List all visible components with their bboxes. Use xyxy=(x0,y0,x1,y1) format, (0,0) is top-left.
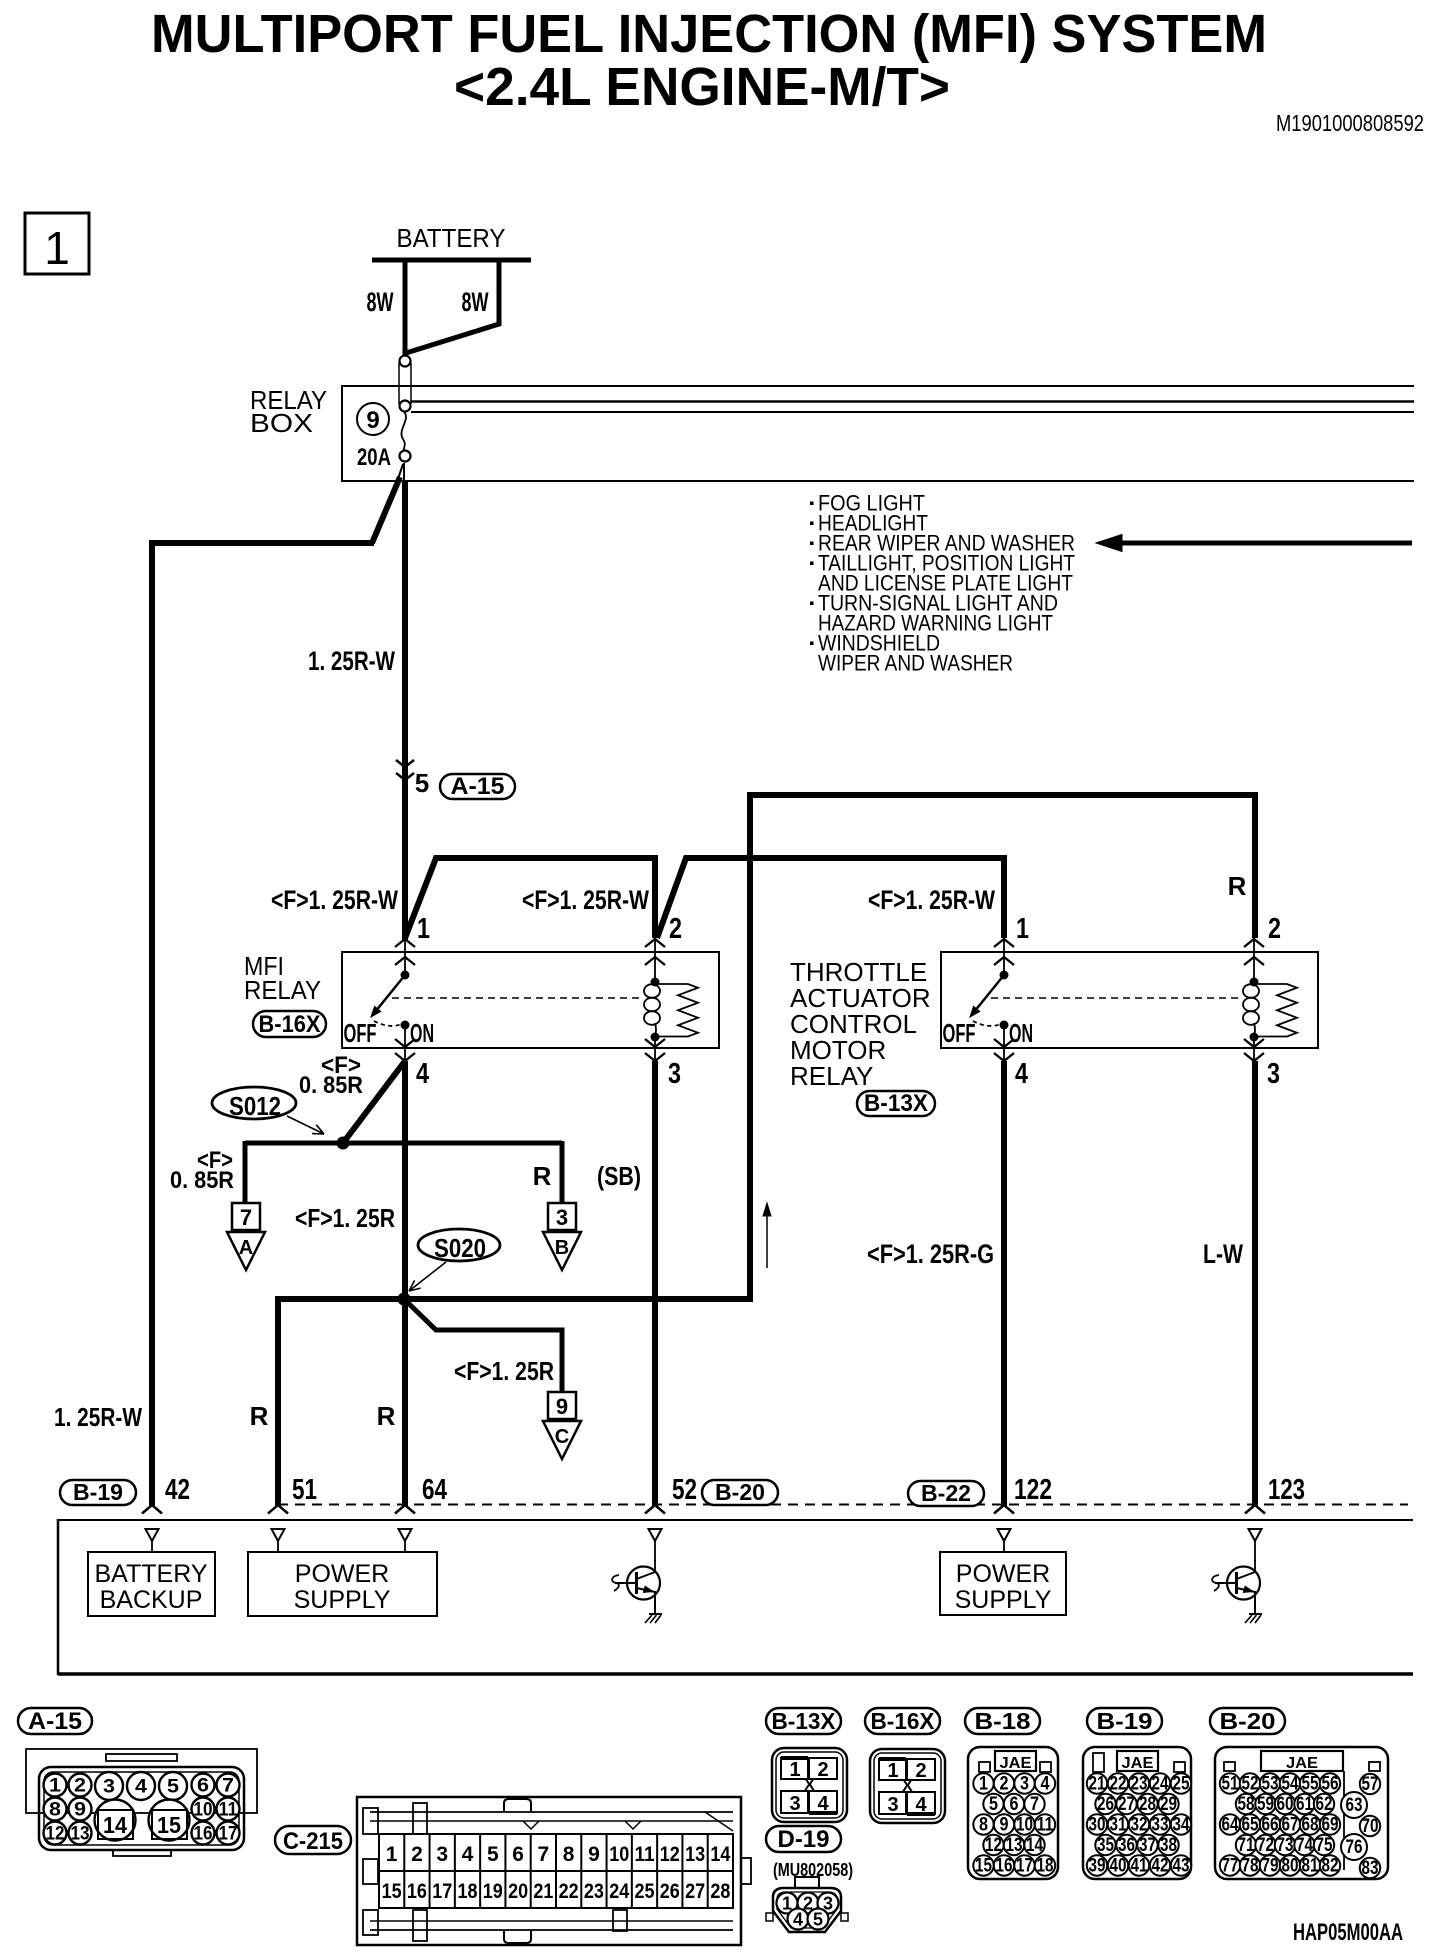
svg-text:66: 66 xyxy=(1262,1815,1279,1836)
throttle actuator control motor relay B-13X switch common contact xyxy=(1000,971,1009,980)
wire R main vertical to ECU pin 64 xyxy=(402,1061,408,1506)
svg-text:67: 67 xyxy=(1282,1815,1299,1836)
svg-text:43: 43 xyxy=(1173,1856,1190,1877)
connector ref label B-22 at ECU xyxy=(908,1481,984,1506)
wire F 1.25R-G from throttle pin4 to ECU pin 122 xyxy=(1001,1061,1007,1506)
svg-text:17: 17 xyxy=(1016,1856,1033,1877)
svg-text:14: 14 xyxy=(710,1843,730,1866)
ECU box outline xyxy=(58,1519,1413,1521)
svg-text:B-20: B-20 xyxy=(1220,1708,1276,1734)
transistor Q2 at pin 123 base bar xyxy=(1235,1572,1238,1594)
figure number 1 box xyxy=(25,213,89,274)
svg-text:72: 72 xyxy=(1257,1835,1274,1856)
svg-text:B-13X: B-13X xyxy=(772,1708,837,1734)
svg-text:23: 23 xyxy=(1131,1774,1148,1795)
svg-text:<F>1. 25R-W: <F>1. 25R-W xyxy=(271,885,398,915)
svg-text:4: 4 xyxy=(1015,1058,1028,1090)
svg-text:POWER: POWER xyxy=(295,1560,389,1588)
svg-text:65: 65 xyxy=(1242,1815,1259,1836)
battery positive bus bar xyxy=(372,258,531,263)
terminal 7 box xyxy=(232,1203,260,1230)
svg-text:B-19: B-19 xyxy=(73,1479,123,1505)
terminal 9 box xyxy=(548,1392,576,1419)
transistor Q1 at pin 52 circle xyxy=(627,1567,660,1600)
svg-text:33: 33 xyxy=(1152,1815,1169,1836)
ECU internal terminal flag pin 51 xyxy=(272,1529,285,1541)
svg-text:63: 63 xyxy=(1346,1795,1363,1816)
svg-text:11: 11 xyxy=(219,1800,238,1821)
throttle actuator control motor relay B-13X switch throw dashed arc to ON xyxy=(973,1021,1001,1026)
svg-text:R: R xyxy=(533,1161,552,1191)
svg-text:A: A xyxy=(239,1237,253,1259)
svg-text:1: 1 xyxy=(887,1760,898,1782)
throttle actuator control motor relay B-13X coil lower node xyxy=(1250,1033,1259,1042)
svg-text:POWER: POWER xyxy=(956,1560,1050,1588)
svg-text:20: 20 xyxy=(508,1880,528,1903)
svg-text:4: 4 xyxy=(135,1777,147,1798)
connector destination B triangle xyxy=(543,1232,581,1270)
svg-text:1: 1 xyxy=(789,1759,800,1781)
svg-text:1: 1 xyxy=(386,1843,398,1866)
svg-text:64: 64 xyxy=(422,1474,447,1506)
svg-text:2: 2 xyxy=(74,1776,86,1797)
connector ref label B-13X xyxy=(766,1708,841,1734)
svg-text:9: 9 xyxy=(556,1394,568,1419)
svg-text:16: 16 xyxy=(194,1824,213,1845)
MFI relay B-16X box outline xyxy=(342,952,719,1048)
wire from fuse diagonal to left branch xyxy=(398,464,403,479)
svg-text:8W: 8W xyxy=(462,287,489,317)
wire horizontal to far-left battery backup feed xyxy=(152,540,374,546)
fuse 9 20A element wavy wire xyxy=(401,412,406,451)
svg-text:52: 52 xyxy=(672,1474,697,1506)
connector A-15 cavity 15 xyxy=(149,1800,190,1841)
svg-text:28: 28 xyxy=(1139,1794,1156,1815)
svg-text:26: 26 xyxy=(1097,1794,1114,1815)
svg-text:3: 3 xyxy=(556,1205,568,1230)
svg-text:6: 6 xyxy=(512,1843,524,1866)
connector ref label B-18 xyxy=(965,1708,1040,1734)
svg-text:32: 32 xyxy=(1131,1815,1148,1836)
throttle relay connector ref B-13X xyxy=(857,1091,935,1116)
S020 callout arrow xyxy=(409,1262,446,1291)
reference up arrow xyxy=(766,1213,768,1268)
svg-text:8: 8 xyxy=(979,1815,988,1836)
relay box load list xyxy=(810,491,1075,676)
wire battery left 8W xyxy=(403,258,408,356)
svg-text:3: 3 xyxy=(1020,1774,1029,1795)
svg-text:4: 4 xyxy=(1041,1774,1050,1795)
throttle actuator control motor relay name label xyxy=(790,957,931,1091)
svg-text:12: 12 xyxy=(985,1835,1002,1856)
svg-text:1. 25R-W: 1. 25R-W xyxy=(308,646,395,676)
ECU internal terminal flag pin 123 xyxy=(1249,1529,1262,1541)
svg-text:1: 1 xyxy=(44,222,70,274)
svg-text:<F>1. 25R: <F>1. 25R xyxy=(454,1356,554,1386)
svg-text:L-W: L-W xyxy=(1203,1239,1243,1269)
connector C-215 pin grid xyxy=(379,1834,733,1908)
MFI relay B-16X switch common contact xyxy=(401,971,410,980)
svg-text:7: 7 xyxy=(240,1205,252,1230)
svg-text:19: 19 xyxy=(483,1880,503,1903)
svg-text:21: 21 xyxy=(533,1880,553,1903)
svg-text:5: 5 xyxy=(989,1794,998,1815)
ECU internal terminal flag pin 64 xyxy=(399,1529,412,1541)
throttle actuator control motor relay B-13X pin 2 terminal symbol xyxy=(1244,939,1264,947)
svg-text:83: 83 xyxy=(1362,1858,1379,1879)
svg-text:9: 9 xyxy=(588,1843,600,1866)
connector C-215 housing xyxy=(357,1797,741,1945)
svg-text:27: 27 xyxy=(1118,1794,1135,1815)
svg-text:1: 1 xyxy=(1016,913,1029,945)
wire SB from MFI pin3 to ECU pin 52 xyxy=(652,1061,658,1506)
svg-text:30: 30 xyxy=(1089,1815,1106,1836)
svg-text:18: 18 xyxy=(458,1880,478,1903)
ECU internal terminal flag pin 52 xyxy=(649,1529,662,1541)
svg-text:2: 2 xyxy=(1268,913,1281,945)
svg-text:R: R xyxy=(1228,871,1247,901)
svg-text:17: 17 xyxy=(432,1880,452,1903)
svg-text:51: 51 xyxy=(1222,1774,1239,1795)
svg-text:80: 80 xyxy=(1282,1856,1299,1877)
svg-text:26: 26 xyxy=(660,1880,680,1903)
svg-text:71: 71 xyxy=(1238,1835,1255,1856)
svg-text:58: 58 xyxy=(1238,1794,1255,1815)
transistor Q1 at pin 52 collector xyxy=(637,1572,656,1579)
svg-text:4: 4 xyxy=(793,1910,803,1930)
svg-text:40: 40 xyxy=(1110,1856,1127,1877)
throttle actuator control motor relay B-13X resistor in parallel with coil xyxy=(1254,984,1297,1037)
connector A-15 cavity 14 xyxy=(95,1800,136,1841)
svg-text:B-16X: B-16X xyxy=(871,1708,936,1734)
svg-text:42: 42 xyxy=(1152,1856,1169,1877)
svg-text:JAE: JAE xyxy=(1122,1755,1154,1772)
svg-text:2: 2 xyxy=(817,1759,828,1781)
wire R down to terminal 3 xyxy=(560,1141,565,1203)
svg-text:JAE: JAE xyxy=(1286,1755,1318,1772)
svg-text:HAP05M00AA: HAP05M00AA xyxy=(1293,1919,1403,1946)
wire 1.25R-W from fuse to MFI relay pin 1 xyxy=(403,463,405,483)
svg-text:3: 3 xyxy=(789,1793,800,1815)
svg-text:74: 74 xyxy=(1296,1835,1313,1856)
svg-text:12: 12 xyxy=(660,1843,680,1866)
svg-text:6: 6 xyxy=(1010,1794,1019,1815)
svg-text:7: 7 xyxy=(222,1776,234,1797)
svg-text:0. 85R: 0. 85R xyxy=(170,1167,234,1194)
svg-text:8: 8 xyxy=(563,1843,575,1866)
svg-text:28: 28 xyxy=(710,1880,730,1903)
svg-text:23: 23 xyxy=(584,1880,604,1903)
svg-text:64: 64 xyxy=(1222,1815,1239,1836)
svg-text:16: 16 xyxy=(996,1856,1013,1877)
svg-text:<F>1. 25R: <F>1. 25R xyxy=(295,1203,395,1233)
svg-text:17: 17 xyxy=(219,1824,238,1845)
ground symbol Q1 at pin 52 xyxy=(645,1614,662,1623)
connector ref label B-20 xyxy=(1210,1708,1285,1734)
svg-text:122: 122 xyxy=(1014,1474,1052,1506)
svg-text:41: 41 xyxy=(1131,1856,1148,1877)
svg-text:S012: S012 xyxy=(229,1091,281,1121)
svg-text:B-18: B-18 xyxy=(975,1708,1031,1734)
svg-text:31: 31 xyxy=(1110,1815,1127,1836)
svg-text:9: 9 xyxy=(366,407,379,434)
MFI relay B-16X coil lower node xyxy=(651,1033,660,1042)
svg-text:123: 123 xyxy=(1268,1474,1305,1506)
svg-text:13: 13 xyxy=(71,1824,90,1845)
svg-text:B-20: B-20 xyxy=(715,1479,765,1505)
svg-text:1: 1 xyxy=(417,913,430,945)
ECU pin 42 terminal fork xyxy=(142,1505,162,1514)
connector ref label B-19 xyxy=(1087,1708,1162,1734)
wire from S012 horizontal xyxy=(245,1141,562,1146)
ground symbol Q2 at pin 123 xyxy=(1245,1614,1262,1623)
MFI relay B-16X coil upper node xyxy=(651,978,660,987)
connector ref label B-20 at ECU xyxy=(702,1480,778,1505)
connector B-18 cavities xyxy=(968,1747,1058,1879)
MFI relay B-16X pin 2 terminal symbol xyxy=(645,939,665,947)
relay box outline xyxy=(342,386,1414,481)
svg-text:<F>1. 25R-G: <F>1. 25R-G xyxy=(867,1239,994,1269)
svg-text:<F>1. 25R-W: <F>1. 25R-W xyxy=(868,885,995,915)
svg-text:34: 34 xyxy=(1173,1815,1190,1836)
svg-text:29: 29 xyxy=(1160,1794,1177,1815)
svg-text:2: 2 xyxy=(411,1843,423,1866)
svg-text:60: 60 xyxy=(1277,1794,1294,1815)
svg-text:25: 25 xyxy=(635,1880,655,1903)
svg-text:JAE: JAE xyxy=(1000,1755,1032,1772)
svg-text:WIPER AND WASHER: WIPER AND WASHER xyxy=(818,651,1013,676)
svg-text:13: 13 xyxy=(1006,1835,1023,1856)
svg-text:61: 61 xyxy=(1296,1794,1313,1815)
svg-text:18: 18 xyxy=(1037,1856,1054,1877)
svg-text:ON: ON xyxy=(410,1018,434,1048)
ECU connector dashed separation line xyxy=(278,1504,1408,1506)
svg-text:M1901000808592: M1901000808592 xyxy=(1276,110,1424,136)
svg-text:A-15: A-15 xyxy=(28,1708,82,1735)
svg-text:RELAY: RELAY xyxy=(790,1061,873,1091)
svg-text:4: 4 xyxy=(817,1793,829,1815)
connector destination C triangle xyxy=(543,1421,581,1459)
ECU pin 52 terminal fork xyxy=(645,1505,665,1514)
inline connector 5 A-15 chevrons xyxy=(396,760,414,767)
throttle actuator control motor relay B-13X relay coil xyxy=(1243,984,1259,998)
svg-text:21: 21 xyxy=(1089,1774,1106,1795)
svg-text:1: 1 xyxy=(49,1776,61,1797)
svg-text:0. 85R: 0. 85R xyxy=(299,1072,363,1099)
svg-text:20A: 20A xyxy=(357,444,391,471)
svg-text:2: 2 xyxy=(669,913,682,945)
fusible link holder top terminal xyxy=(400,356,411,367)
svg-text:79: 79 xyxy=(1262,1856,1279,1877)
svg-text:10: 10 xyxy=(194,1800,213,1821)
ECU battery backup block xyxy=(88,1552,215,1616)
connector ref label C-215 xyxy=(275,1826,351,1854)
svg-text:SUPPLY: SUPPLY xyxy=(955,1586,1052,1614)
junction S012 xyxy=(337,1137,350,1150)
svg-text:MULTIPORT FUEL INJECTION (MFI): MULTIPORT FUEL INJECTION (MFI) SYSTEM xyxy=(151,4,1267,64)
transistor Q1 at pin 52 emitter to ground xyxy=(654,1591,656,1614)
svg-text:5: 5 xyxy=(415,768,429,798)
svg-text:11: 11 xyxy=(1037,1815,1054,1836)
svg-text:A-15: A-15 xyxy=(451,773,505,800)
svg-text:6: 6 xyxy=(197,1776,209,1797)
svg-text:4: 4 xyxy=(915,1794,927,1816)
MFI relay B-16X switch ON contact xyxy=(401,1021,410,1030)
svg-text:15: 15 xyxy=(157,1812,181,1838)
throttle actuator control motor relay B-13X coupling dashed line between switch and coil xyxy=(991,997,1242,999)
svg-text:35: 35 xyxy=(1097,1835,1114,1856)
fuse lower terminal xyxy=(400,451,411,462)
svg-text:76: 76 xyxy=(1346,1837,1363,1858)
svg-text:82: 82 xyxy=(1322,1856,1339,1877)
svg-text:24: 24 xyxy=(609,1880,629,1903)
svg-text:37: 37 xyxy=(1139,1835,1156,1856)
svg-text:(SB): (SB) xyxy=(597,1161,641,1191)
connector A-15 housing xyxy=(26,1749,257,1813)
svg-text:39: 39 xyxy=(1089,1856,1106,1877)
svg-text:7: 7 xyxy=(538,1843,550,1866)
svg-text:11: 11 xyxy=(635,1843,655,1866)
svg-text:OFF: OFF xyxy=(943,1018,976,1048)
svg-text:25: 25 xyxy=(1173,1774,1190,1795)
ECU pin 123 terminal fork xyxy=(1245,1505,1265,1514)
svg-text:3: 3 xyxy=(436,1843,448,1866)
connector ref label B-16X xyxy=(865,1708,940,1734)
svg-text:C-215: C-215 xyxy=(283,1828,343,1855)
svg-text:X: X xyxy=(804,1777,815,1794)
svg-text:<F>1. 25R-W: <F>1. 25R-W xyxy=(522,885,649,915)
transistor Q2 at pin 123 collector xyxy=(1237,1572,1256,1579)
relay box bus line upper xyxy=(411,400,1414,403)
svg-text:C: C xyxy=(555,1426,569,1448)
svg-text:57: 57 xyxy=(1362,1774,1379,1795)
throttle actuator control motor relay B-13X pin 3 terminal symbol xyxy=(1244,1039,1264,1047)
svg-text:70: 70 xyxy=(1362,1816,1379,1837)
svg-text:B: B xyxy=(555,1237,569,1259)
throttle actuator control motor relay B-13X coil upper node xyxy=(1250,978,1259,987)
svg-text:SUPPLY: SUPPLY xyxy=(294,1586,391,1614)
svg-text:81: 81 xyxy=(1302,1856,1319,1877)
svg-text:BATTERY: BATTERY xyxy=(397,223,506,253)
svg-text:R: R xyxy=(377,1401,396,1431)
svg-text:S020: S020 xyxy=(434,1233,486,1263)
fusible link body xyxy=(398,363,400,404)
svg-text:9: 9 xyxy=(1000,1815,1009,1836)
connector B-20 cavities xyxy=(1215,1747,1388,1879)
svg-text:OFF: OFF xyxy=(344,1018,377,1048)
svg-text:14: 14 xyxy=(1026,1835,1043,1856)
svg-text:D-19: D-19 xyxy=(778,1826,830,1853)
svg-text:5: 5 xyxy=(813,1910,823,1930)
svg-text:RELAY: RELAY xyxy=(244,975,321,1005)
svg-text:56: 56 xyxy=(1322,1774,1339,1795)
svg-text:68: 68 xyxy=(1302,1815,1319,1836)
throttle actuator control motor relay B-13X switch ON contact xyxy=(1000,1021,1009,1030)
terminal 3 box xyxy=(548,1203,576,1230)
junction S020 xyxy=(398,1293,411,1306)
wire MFI relay pin1 to pin2 jumper xyxy=(405,858,655,938)
throttle actuator control motor relay B-13X pin 1 terminal symbol xyxy=(994,939,1014,947)
svg-text:3: 3 xyxy=(1267,1058,1280,1090)
svg-text:1: 1 xyxy=(979,1774,988,1795)
wire F 1.25R branch from S020 to terminal 9 xyxy=(404,1299,562,1392)
svg-text:2: 2 xyxy=(1000,1774,1009,1795)
svg-text:52: 52 xyxy=(1242,1774,1259,1795)
svg-text:69: 69 xyxy=(1322,1815,1339,1836)
transistor Q1 at pin 52 emitter with arrow xyxy=(637,1588,656,1592)
svg-text:59: 59 xyxy=(1257,1794,1274,1815)
MFI relay B-16X pin 3 terminal symbol xyxy=(645,1039,665,1047)
arrow pointing to REAR WIPER AND WASHER xyxy=(1116,541,1412,546)
svg-text:BACKUP: BACKUP xyxy=(100,1586,203,1614)
svg-text:51: 51 xyxy=(292,1474,317,1506)
wire MFI relay pin2 to throttle relay pin1 jumper xyxy=(657,858,1004,938)
throttle actuator control motor relay B-13X switch blade in OFF position xyxy=(974,975,1004,1012)
MFI relay B-16X switch throw dashed arc to ON xyxy=(374,1021,402,1026)
MFI relay B-16X relay coil xyxy=(644,984,660,998)
svg-text:16: 16 xyxy=(407,1880,427,1903)
svg-text:BATTERY: BATTERY xyxy=(95,1560,208,1588)
svg-text:55: 55 xyxy=(1302,1774,1319,1795)
svg-text:77: 77 xyxy=(1222,1856,1239,1877)
throttle actuator control motor relay B-13X box outline xyxy=(941,952,1318,1048)
svg-text:38: 38 xyxy=(1160,1835,1177,1856)
MFI relay B-16X pin 1 terminal symbol xyxy=(395,939,415,947)
svg-text:27: 27 xyxy=(685,1880,705,1903)
connector ref label B-19 at ECU xyxy=(60,1480,136,1505)
svg-text:15: 15 xyxy=(382,1880,402,1903)
svg-text:9: 9 xyxy=(74,1800,86,1821)
svg-text:8: 8 xyxy=(49,1800,61,1821)
svg-text:4: 4 xyxy=(416,1058,429,1090)
svg-text:5: 5 xyxy=(167,1777,179,1798)
svg-text:2: 2 xyxy=(915,1760,926,1782)
svg-text:R: R xyxy=(250,1401,269,1431)
transistor Q1 at pin 52 base lead with hook xyxy=(615,1582,637,1584)
svg-text:3: 3 xyxy=(887,1794,898,1816)
svg-text:10: 10 xyxy=(609,1843,629,1866)
svg-text:B-16X: B-16X xyxy=(259,1011,321,1038)
svg-text:36: 36 xyxy=(1118,1835,1135,1856)
connector D-19 drawing xyxy=(795,1877,819,1888)
relay box bus line lower xyxy=(411,411,1414,413)
wire 1.25R-W far-left vertical to ECU pin 42 xyxy=(149,540,155,1506)
svg-text:5: 5 xyxy=(487,1843,499,1866)
wire R loop from S020 junction to throttle relay pin2 xyxy=(407,795,1255,1299)
ECU power supply block right xyxy=(940,1552,1066,1615)
wire L-W from throttle pin3 to ECU pin 123 xyxy=(1252,1061,1258,1506)
svg-text:BOX: BOX xyxy=(250,408,313,438)
svg-text:ON: ON xyxy=(1009,1018,1033,1048)
connector A-15 cavities 1-13 16 17 xyxy=(44,1772,240,1845)
svg-text:13: 13 xyxy=(685,1843,705,1866)
MFI relay B-16X switch blade in OFF position xyxy=(375,975,405,1012)
svg-text:8W: 8W xyxy=(367,287,394,317)
svg-text:B-19: B-19 xyxy=(1097,1708,1153,1734)
svg-text:53: 53 xyxy=(1262,1774,1279,1795)
MFI relay B-16X pin 4 terminal symbol xyxy=(395,1039,415,1047)
svg-text:78: 78 xyxy=(1242,1856,1259,1877)
connector B-19 cavities xyxy=(1083,1747,1191,1879)
svg-text:14: 14 xyxy=(103,1812,127,1838)
svg-text:<2.4L ENGINE-M/T>: <2.4L ENGINE-M/T> xyxy=(454,57,950,117)
svg-text:12: 12 xyxy=(46,1824,65,1845)
svg-text:15: 15 xyxy=(975,1856,992,1877)
svg-text:3: 3 xyxy=(668,1058,681,1090)
ECU pin 64 terminal fork xyxy=(395,1505,415,1514)
ECU internal terminal flag pin 122 xyxy=(998,1529,1011,1541)
svg-text:4: 4 xyxy=(462,1843,474,1866)
